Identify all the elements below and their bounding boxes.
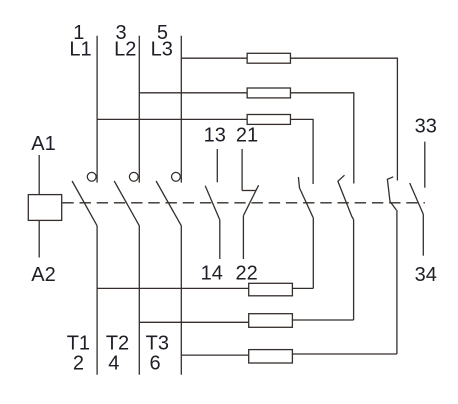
svg-text:L3: L3 [151, 39, 173, 61]
svg-text:34: 34 [415, 264, 437, 286]
wire A1 lead [38, 155, 40, 195]
wire pole 1 to bottom box 1 [97, 287, 249, 289]
box lower pole-2 link [249, 314, 293, 328]
wire lower top box to contact A top [290, 119, 313, 184]
svg-text:2: 2 [73, 353, 84, 375]
wire L3 top vertical [180, 36, 182, 183]
box upper pole-1 link [247, 115, 290, 125]
aux NO contact 13-14 fixed terminal [216, 149, 218, 182]
svg-text:L2: L2 [114, 39, 136, 61]
wire pole 2 bottom vertical [138, 226, 140, 375]
svg-text:A2: A2 [31, 264, 55, 286]
wire A2 lead [38, 220, 40, 257]
wire 22 lead [242, 216, 244, 259]
svg-text:4: 4 [108, 353, 119, 375]
wire middle box to contact B top [290, 93, 353, 184]
wire bottom box 2 to contact B [292, 319, 353, 321]
wire contact B bottom vertical [353, 220, 355, 321]
aux NC contact 21-22 seat bar [242, 190, 256, 192]
wire pole 2 to bottom box 2 [139, 321, 248, 323]
aux contact A moving blade [298, 177, 313, 217]
aux NC contact 21-22 moving blade [243, 185, 258, 216]
aux contact B moving blade [338, 175, 354, 219]
aux NC contact 21-22 fixed terminal [241, 149, 243, 191]
wire L1 top vertical [96, 36, 98, 183]
wire top box to contact C top [290, 58, 397, 180]
coil box A1-A2 [28, 195, 61, 221]
aux NO contact 13-14 moving blade [205, 186, 220, 220]
wire bottom box 1 to contact A [292, 287, 313, 289]
box upper pole-3 link [247, 53, 290, 63]
svg-text:6: 6 [149, 353, 160, 375]
wire contact A bottom vertical [312, 217, 314, 288]
svg-text:T3: T3 [146, 333, 169, 355]
pole 3 moving blade [156, 181, 181, 226]
svg-text:13: 13 [204, 125, 226, 147]
svg-text:T1: T1 [67, 333, 90, 355]
aux NO contact 33-34 moving blade [410, 183, 424, 215]
wire pole 3 bottom vertical [180, 226, 182, 375]
svg-text:A1: A1 [31, 133, 55, 155]
aux NO contact 33-34 fixed terminal [424, 142, 426, 188]
wire 34 lead [422, 215, 424, 256]
pole 1 fixed contact circle [87, 172, 96, 181]
wire contact C bottom vertical [396, 210, 398, 354]
wire pole 3 to bottom box 3 [181, 354, 248, 356]
pole 3 fixed contact circle [172, 172, 181, 181]
pole 1 moving blade [72, 181, 97, 226]
wire L2 top vertical [138, 36, 140, 183]
wire L2 to middle box [139, 92, 247, 94]
dashed mechanical linkage line [62, 202, 425, 204]
svg-text:22: 22 [235, 262, 257, 284]
pole 2 fixed contact circle [129, 172, 138, 181]
aux contact C moving blade [387, 177, 396, 210]
box lower pole-1 link [249, 283, 293, 296]
svg-text:L1: L1 [69, 39, 91, 61]
svg-text:T2: T2 [106, 333, 129, 355]
svg-text:33: 33 [415, 116, 437, 138]
wire bottom box 3 to contact C [292, 353, 397, 355]
wire pole 1 bottom vertical [96, 226, 98, 375]
wire L1 to lower top box [97, 118, 247, 120]
svg-text:21: 21 [236, 125, 258, 147]
pole 2 moving blade [114, 181, 139, 226]
box lower pole-3 link [249, 350, 293, 363]
svg-text:14: 14 [201, 262, 223, 284]
wire 14 lead [219, 220, 221, 259]
wire L3 to top box [181, 57, 247, 59]
box upper pole-2 link [247, 88, 290, 98]
